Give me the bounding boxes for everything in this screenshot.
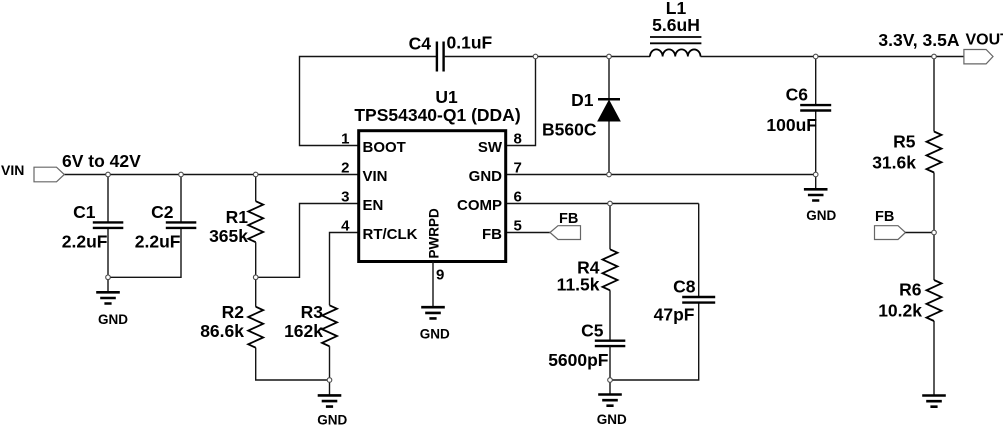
resistor R1 wire <box>255 175 257 278</box>
ground under R6 <box>922 396 946 407</box>
svg-text:GND: GND <box>597 412 627 427</box>
resistor R4 wire <box>609 204 611 341</box>
svg-text:1: 1 <box>341 131 349 148</box>
node C1/C2 ground bus junction <box>106 275 111 280</box>
wire C5 to rail <box>609 346 611 394</box>
svg-text:R5: R5 <box>893 131 916 151</box>
node D1/GND rail junction <box>607 172 612 177</box>
resistor R5 <box>927 132 942 173</box>
svg-text:R3: R3 <box>301 302 324 322</box>
node C6/top rail junction <box>813 54 818 59</box>
svg-text:C4: C4 <box>409 34 432 54</box>
svg-text:4: 4 <box>341 218 350 235</box>
svg-text:SW: SW <box>478 139 503 156</box>
resistor R3 <box>322 305 337 346</box>
svg-text:7: 7 <box>514 160 522 177</box>
ground under C1 <box>96 292 120 303</box>
svg-text:D1: D1 <box>571 90 594 110</box>
resistor R1 <box>248 201 263 242</box>
svg-text:FB: FB <box>875 209 894 225</box>
svg-text:B560C: B560C <box>542 120 597 140</box>
wire SW drop <box>506 57 536 146</box>
diode D1 cathode bar <box>598 98 620 101</box>
node VIN/R1 junction <box>253 172 258 177</box>
svg-text:5600pF: 5600pF <box>548 350 609 370</box>
node VIN/C2 junction <box>179 172 184 177</box>
svg-text:8: 8 <box>514 131 522 148</box>
svg-text:2: 2 <box>341 160 349 177</box>
resistor R6 <box>927 280 942 321</box>
svg-text:FB: FB <box>482 226 502 243</box>
node R5/top rail junction <box>932 54 937 59</box>
svg-text:C5: C5 <box>581 321 604 341</box>
capacitor C6 wire <box>815 57 817 190</box>
wire FB pin5 stub <box>506 232 550 234</box>
wire FB tag to node <box>906 232 935 234</box>
svg-text:9: 9 <box>436 267 444 284</box>
ground under C5/C8 rail <box>598 395 622 406</box>
svg-text:5.6uH: 5.6uH <box>652 15 700 35</box>
svg-text:6: 6 <box>514 189 522 206</box>
node VIN/C1 junction <box>106 172 111 177</box>
svg-text:RT/CLK: RT/CLK <box>363 226 418 243</box>
svg-text:100uF: 100uF <box>766 115 817 135</box>
svg-text:VIN: VIN <box>1 162 24 178</box>
svg-text:C6: C6 <box>786 85 809 105</box>
capacitor C5 <box>595 341 626 346</box>
wire R3 to ground <box>329 346 331 395</box>
port FB tag (divider) <box>875 226 906 240</box>
svg-text:10.2k: 10.2k <box>878 300 922 320</box>
svg-text:31.6k: 31.6k <box>872 153 916 173</box>
svg-text:GND: GND <box>98 312 128 327</box>
wire pin9 to ground <box>432 262 434 307</box>
capacitor C2 branch wire <box>108 175 181 278</box>
ground under C6 <box>804 189 828 200</box>
node D1/top rail junction <box>607 54 612 59</box>
svg-text:R6: R6 <box>899 280 922 300</box>
svg-text:0.1uF: 0.1uF <box>447 33 493 53</box>
wire VIN input rail <box>64 174 358 176</box>
port FB tag (pin5) <box>550 226 581 240</box>
wire RT/CLK pin4 to R3 <box>330 233 359 306</box>
node R1/R2/EN junction <box>253 275 258 280</box>
resistor R5 wire <box>933 57 935 233</box>
node C6/GND rail junction <box>813 172 818 177</box>
capacitor C4 <box>437 42 444 72</box>
svg-text:5: 5 <box>514 218 522 235</box>
svg-text:GND: GND <box>806 208 836 223</box>
port VIN tag <box>34 167 64 182</box>
node COMP/R4 junction <box>608 201 613 206</box>
node FB divider junction <box>932 230 937 235</box>
resistor R6 wire <box>933 233 935 396</box>
svg-text:365k: 365k <box>209 226 248 246</box>
capacitor C2 <box>166 222 197 228</box>
resistor R2 wire <box>256 277 330 380</box>
wire top rail L1 to VOUT <box>701 56 964 58</box>
svg-text:VOUT: VOUT <box>966 32 1003 49</box>
svg-text:R2: R2 <box>222 302 245 322</box>
inductor L1 core lines <box>650 37 701 43</box>
svg-text:6V to 42V: 6V to 42V <box>62 151 141 171</box>
capacitor C6 <box>800 105 831 110</box>
node R2/R3 rail junction <box>327 378 332 383</box>
wire top rail C4 to L1 <box>444 56 650 58</box>
ground under R3 <box>318 395 342 406</box>
wire BOOT loop vertical/horizontal <box>300 57 437 146</box>
op-amp U1 TPS54340-Q1 box <box>359 131 506 262</box>
wire D1 vertical <box>608 57 610 175</box>
svg-text:BOOT: BOOT <box>363 139 406 156</box>
node C5/C8 rail junction <box>608 378 613 383</box>
inductor L1 coil <box>650 49 700 56</box>
svg-text:86.6k: 86.6k <box>200 321 244 341</box>
svg-text:R1: R1 <box>226 207 249 227</box>
svg-text:GND: GND <box>420 327 450 342</box>
svg-text:VIN: VIN <box>363 168 388 185</box>
svg-text:11.5k: 11.5k <box>557 275 600 295</box>
capacitor C1 branch wire <box>107 175 109 293</box>
ground under pin 9 <box>421 307 445 318</box>
svg-text:FB: FB <box>559 211 578 227</box>
svg-text:2.2uF: 2.2uF <box>62 231 108 251</box>
node SW/top rail junction <box>533 54 538 59</box>
port VOUT tag <box>964 50 993 64</box>
svg-text:COMP: COMP <box>457 197 502 214</box>
svg-text:47pF: 47pF <box>654 305 695 325</box>
capacitor C8 <box>682 297 715 303</box>
svg-text:TPS54340-Q1 (DDA): TPS54340-Q1 (DDA) <box>354 105 520 125</box>
svg-text:3: 3 <box>341 189 349 206</box>
resistor R4 <box>603 249 618 290</box>
svg-text:PWRPD: PWRPD <box>427 208 442 259</box>
resistor R2 <box>248 307 263 348</box>
svg-text:EN: EN <box>363 197 384 214</box>
svg-text:162k: 162k <box>284 321 323 341</box>
capacitor C1 <box>93 222 124 228</box>
svg-text:GND: GND <box>469 168 503 185</box>
svg-text:GND: GND <box>317 412 347 427</box>
svg-text:C2: C2 <box>151 202 174 222</box>
wire COMP pin6 <box>506 203 699 205</box>
svg-text:C8: C8 <box>673 277 696 297</box>
diode D1 triangle <box>598 101 620 122</box>
wire GND pin7 rail <box>506 174 816 176</box>
svg-text:2.2uF: 2.2uF <box>135 231 181 251</box>
svg-text:3.3V, 3.5A: 3.3V, 3.5A <box>878 30 959 50</box>
wire C8 branch <box>610 204 699 381</box>
wire EN pin3 <box>256 204 359 278</box>
svg-text:C1: C1 <box>73 202 96 222</box>
